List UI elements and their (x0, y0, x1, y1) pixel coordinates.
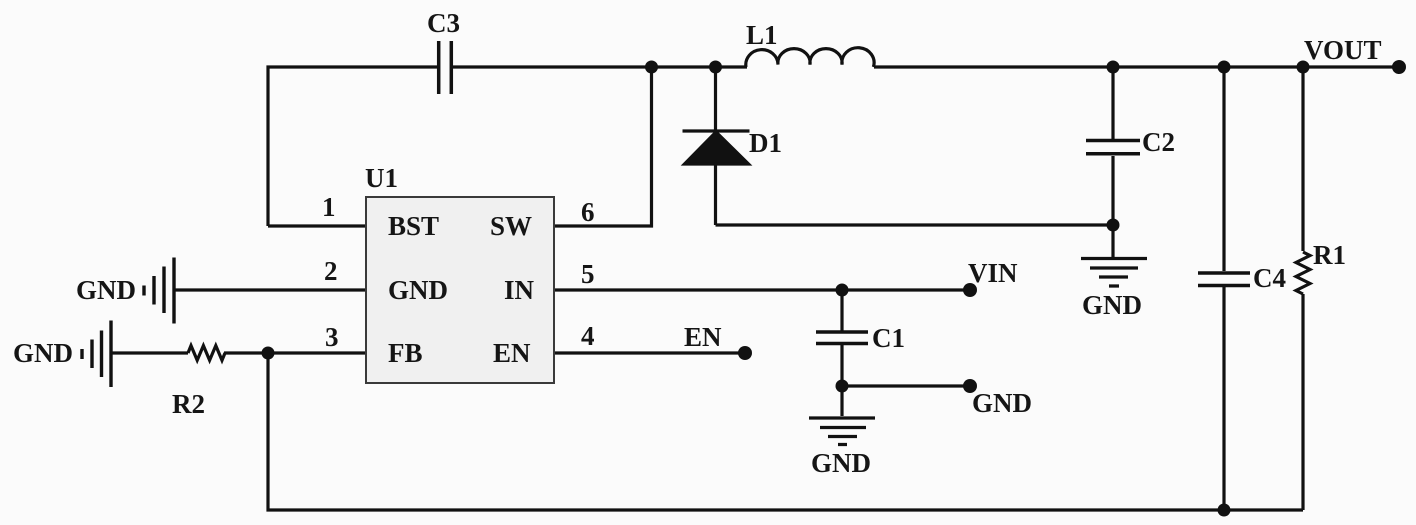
svg-text:IN: IN (504, 275, 535, 305)
junction D1 node (709, 61, 722, 74)
terminal EN (738, 346, 752, 360)
IC U1 body (366, 197, 554, 383)
svg-text:GND: GND (76, 275, 136, 305)
wire C4 to bottom rail (1222, 287, 1225, 510)
wire pin4 EN (555, 351, 745, 354)
wire VOUT rail to C4 (1222, 67, 1225, 271)
svg-text:D1: D1 (749, 128, 782, 158)
wire pin2 GND (174, 288, 365, 291)
svg-text:EN: EN (493, 338, 531, 368)
junction C1 ground node (836, 380, 849, 393)
capacitor C2 (1086, 141, 1140, 154)
svg-text:VIN: VIN (968, 258, 1018, 288)
svg-text:GND: GND (811, 448, 871, 478)
junction SW node (645, 61, 658, 74)
capacitor C4 (1198, 273, 1250, 286)
svg-text:C1: C1 (872, 323, 905, 353)
wire L1 to VOUT (874, 65, 1399, 68)
capacitor C1 (816, 332, 868, 344)
wire C1 to ground node (840, 345, 843, 386)
junction FB node (262, 347, 275, 360)
wire D1 anode down (714, 163, 717, 225)
svg-text:R1: R1 (1313, 240, 1346, 270)
diode D1 (683, 131, 750, 164)
wire C3 to SW node (453, 65, 747, 68)
wire ground to R2 (111, 351, 188, 354)
svg-text:R2: R2 (172, 389, 205, 419)
wire bottom feedback rail (268, 353, 1303, 510)
svg-text:U1: U1 (365, 163, 398, 193)
svg-text:BST: BST (388, 211, 439, 241)
wire VOUT rail to R1 (1301, 67, 1304, 251)
ground symbol (C2) (1081, 225, 1147, 286)
svg-text:GND: GND (388, 275, 448, 305)
wire C2 to ground node (1111, 156, 1114, 225)
terminal GND (right of C1) (963, 379, 977, 393)
wire SW node to D1 (714, 67, 717, 131)
junction R1 top (1297, 61, 1310, 74)
svg-text:SW: SW (490, 211, 532, 241)
svg-text:EN: EN (684, 322, 722, 352)
wire pin6 SW riser (555, 67, 652, 226)
ground symbol (C1) (809, 386, 875, 445)
junction C4 bottom (1218, 504, 1231, 517)
terminal VIN (963, 283, 977, 297)
capacitor C3 (439, 41, 452, 94)
junction VIN node (836, 284, 849, 297)
wire top left segment (BST loop to C3) (268, 67, 437, 226)
wire C1 ground node to GND terminal (842, 384, 970, 387)
junction C4 top (1218, 61, 1231, 74)
wire pin1 BST (268, 224, 365, 227)
svg-text:6: 6 (581, 197, 595, 227)
svg-text:4: 4 (581, 321, 595, 351)
svg-text:VOUT: VOUT (1304, 35, 1381, 65)
inductor L1 (746, 48, 874, 67)
svg-text:GND: GND (972, 388, 1032, 418)
wire VIN node to C1 (840, 290, 843, 331)
svg-text:GND: GND (1082, 290, 1142, 320)
svg-text:C4: C4 (1253, 263, 1286, 293)
wire VOUT rail to C2 (1111, 67, 1114, 139)
svg-text:C2: C2 (1142, 127, 1175, 157)
resistor R2 (188, 346, 225, 361)
wire pin5 IN to VIN (555, 288, 970, 291)
svg-text:GND: GND (13, 338, 73, 368)
resistor R1 (1296, 252, 1310, 294)
svg-text:2: 2 (324, 256, 338, 286)
ground symbol (pin2 GND, rotated) (144, 258, 174, 324)
svg-text:L1: L1 (746, 20, 778, 50)
svg-text:1: 1 (322, 192, 336, 222)
junction C2 top (1107, 61, 1120, 74)
svg-text:C3: C3 (427, 8, 460, 38)
junction C2 ground node (1107, 219, 1120, 232)
wire R2 to FB node (224, 351, 365, 354)
ground symbol (R2 side, rotated) (82, 321, 111, 388)
svg-text:5: 5 (581, 259, 595, 289)
terminal VOUT (1392, 60, 1406, 74)
svg-text:3: 3 (325, 322, 339, 352)
wire D1 anode to C2 ground node (716, 223, 1114, 226)
svg-text:FB: FB (388, 338, 423, 368)
wire R1 to bottom rail (1301, 294, 1304, 510)
